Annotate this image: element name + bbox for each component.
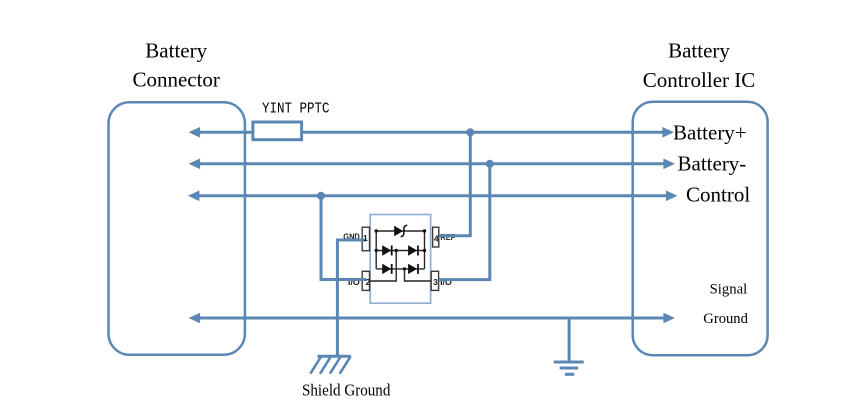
svg-text:2: 2 [366,277,371,287]
IC wire bottom node to pin 3 [405,269,431,281]
wire I/O3 branch to Battery- [439,165,490,279]
svg-text:1: 1 [363,233,368,243]
pin 1 box [362,227,369,251]
IC U1 body [370,215,430,304]
svg-text:Battery: Battery [668,38,730,62]
svg-text:3: 3 [433,277,438,287]
left connector box [109,102,245,355]
pin 2 box [362,271,369,290]
junction dot on Control [317,192,325,200]
right controller box [633,102,768,355]
svg-text:Ground: Ground [703,311,748,327]
IC wire middle node to pin 2 [370,251,396,282]
svg-text:YINT PPTC: YINT PPTC [262,101,330,118]
resistor YINT PPTC [253,122,302,140]
IC internal bottom row [376,268,424,270]
svg-text:4: 4 [434,234,439,244]
svg-text:Control: Control [686,183,750,207]
wire Control [195,194,670,197]
shield ground symbol [317,355,350,358]
wire GND to shield ground [337,240,366,356]
IC internal left rail [375,231,377,269]
IC junction dots [375,229,378,232]
IC internal middle row [376,250,424,252]
pin 4 box [433,227,439,247]
junction dot on Battery- [486,160,494,168]
diode D3 (middle right) [408,245,417,255]
svg-text:Signal: Signal [710,281,748,297]
wire Control branch to I/O2 [321,197,367,279]
wire Signal Ground [196,317,667,320]
earth ground symbol [568,318,571,361]
svg-text:Shield Ground: Shield Ground [302,380,391,399]
svg-text:Controller IC: Controller IC [643,68,756,92]
diode D4 (bottom left) [382,264,391,274]
wire Battery- [196,162,667,165]
svg-text:Battery: Battery [145,38,207,62]
wire REF branch to Battery+ [439,134,470,236]
diode D2 (middle left) [382,245,391,255]
diode D5 (bottom right) [408,264,417,274]
IC internal top rail [376,230,424,232]
pin 3 box [431,271,438,290]
zener diode D1 [394,226,403,236]
svg-text:Battery+: Battery+ [673,121,747,145]
svg-text:Connector: Connector [132,68,219,92]
junction dot on Battery+ [466,128,474,136]
svg-text:Battery-: Battery- [678,152,747,176]
IC internal right rail [424,231,426,269]
wire Battery+ [196,131,666,134]
